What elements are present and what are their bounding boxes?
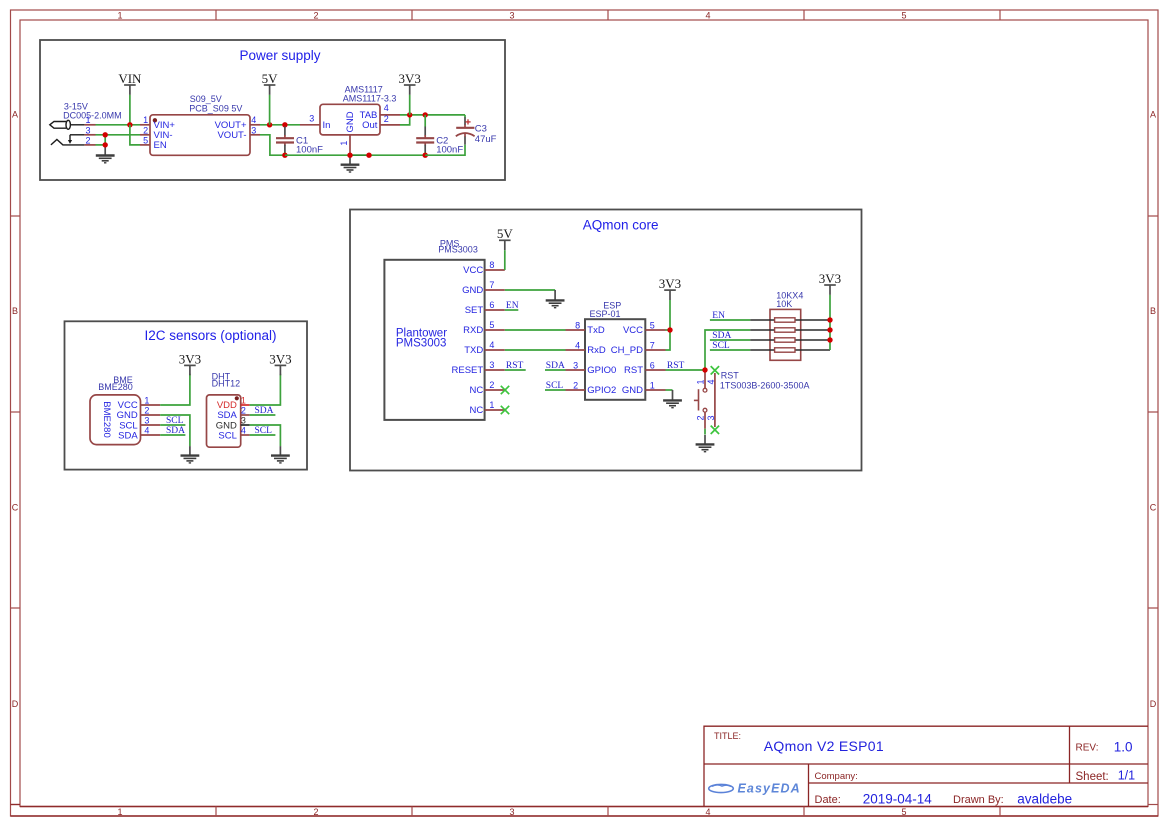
svg-text:SDA: SDA bbox=[712, 331, 731, 341]
frame tick top 5 bbox=[999, 10, 1001, 20]
frame corner cap bottom-left bbox=[11, 804, 21, 806]
svg-text:3V3: 3V3 bbox=[269, 351, 291, 366]
resistor network RN1 element R3 bbox=[775, 338, 795, 342]
svg-text:4: 4 bbox=[489, 340, 494, 350]
connector J1 pin 2 lever contact bbox=[51, 140, 85, 145]
frame tick right C/D bbox=[1148, 607, 1158, 609]
svg-text:5: 5 bbox=[901, 10, 906, 20]
net label SDA at BME bbox=[166, 426, 185, 436]
wire U4.GND to ground bbox=[250, 425, 281, 446]
svg-text:1: 1 bbox=[695, 379, 705, 384]
svg-text:3: 3 bbox=[251, 125, 256, 135]
junction U6.VCC 3V3 bbox=[667, 327, 672, 332]
svg-text:1: 1 bbox=[117, 10, 122, 20]
svg-text:C: C bbox=[1150, 503, 1157, 513]
frame corner cap bottom-right bbox=[1148, 804, 1158, 806]
frame tick right B/C bbox=[1148, 411, 1158, 413]
svg-text:5: 5 bbox=[489, 320, 494, 330]
svg-text:10K: 10K bbox=[776, 299, 792, 309]
switch SW1 pin2 stub bbox=[704, 412, 706, 428]
wire 3V3 down RN right side bbox=[829, 295, 831, 350]
net flag 3V3 RN bbox=[819, 271, 841, 295]
junction RN pin EN bbox=[827, 317, 832, 322]
resistor network RN1 element R2 bbox=[775, 328, 795, 332]
svg-text:3: 3 bbox=[309, 114, 314, 124]
svg-text:2: 2 bbox=[143, 125, 148, 135]
svg-text:GND: GND bbox=[622, 385, 643, 396]
frame tick top 4 bbox=[803, 10, 805, 20]
svg-text:DHT12: DHT12 bbox=[212, 379, 241, 389]
svg-text:1: 1 bbox=[339, 141, 349, 146]
ground under DC jack bbox=[96, 145, 115, 163]
svg-text:1: 1 bbox=[650, 381, 655, 391]
net label SDA at U6.GPIO0 bbox=[546, 361, 565, 371]
frame bottom inner emphasized bbox=[20, 806, 1148, 808]
svg-text:1TS003B-2600-3500A: 1TS003B-2600-3500A bbox=[720, 381, 810, 391]
svg-text:TXD: TXD bbox=[464, 345, 483, 356]
i2c sensors section box bbox=[65, 321, 308, 469]
svg-text:RST: RST bbox=[624, 365, 643, 376]
svg-text:EN: EN bbox=[154, 140, 167, 151]
junction RST switch bbox=[702, 367, 707, 372]
svg-text:NC: NC bbox=[469, 405, 483, 416]
wire U3.GND to ground bbox=[160, 415, 190, 446]
wire 3V3 down to U6.VCC and CH_PD bbox=[666, 300, 671, 350]
sensor U4 pin names bbox=[216, 400, 238, 441]
module U1 left pin stubs bbox=[140, 125, 150, 145]
wire U4.SDA stub wire bbox=[250, 414, 276, 416]
svg-text:SDA: SDA bbox=[255, 406, 274, 416]
svg-text:3V3: 3V3 bbox=[659, 276, 681, 291]
svg-text:1: 1 bbox=[85, 115, 90, 125]
net flag 3V3 power bbox=[399, 71, 421, 95]
frame tick left A/B bbox=[11, 215, 21, 217]
regulator U2 In pin stub bbox=[300, 124, 320, 126]
svg-text:8: 8 bbox=[489, 260, 494, 270]
sensor U5 pin names bbox=[452, 265, 484, 416]
svg-text:3V3: 3V3 bbox=[819, 271, 841, 286]
module U6 pin numbers bbox=[573, 321, 655, 391]
svg-text:2019-04-14: 2019-04-14 bbox=[863, 791, 933, 806]
net label EN at RN bbox=[712, 311, 725, 321]
wire U6.GPIO2 stub wire bbox=[545, 389, 566, 391]
title block outline bbox=[704, 726, 1148, 806]
module U6 pin names bbox=[587, 325, 643, 396]
svg-text:I2C sensors (optional): I2C sensors (optional) bbox=[144, 328, 276, 343]
svg-text:B: B bbox=[1150, 306, 1156, 316]
junction C2 top bbox=[423, 112, 428, 117]
svg-text:Sheet:: Sheet: bbox=[1076, 771, 1109, 783]
net label SCL at U6.GPIO2 bbox=[546, 381, 564, 391]
svg-text:ESP-01: ESP-01 bbox=[590, 309, 621, 319]
svg-text:4: 4 bbox=[705, 10, 710, 20]
switch SW1 contact circle bottom bbox=[703, 408, 707, 412]
svg-text:100nF: 100nF bbox=[296, 145, 323, 156]
svg-text:In: In bbox=[323, 120, 331, 131]
module U6 right pin stubs bbox=[645, 330, 665, 390]
wire J1.2 to ground bbox=[96, 144, 106, 146]
junction 5V bbox=[267, 122, 272, 127]
svg-text:RST: RST bbox=[667, 361, 685, 371]
aqmon core section box bbox=[350, 210, 862, 471]
sensor U5 pin stubs bbox=[485, 270, 505, 410]
svg-text:4: 4 bbox=[705, 807, 710, 817]
sensor U4 body bbox=[207, 395, 241, 447]
frame tick bottom 4 bbox=[803, 807, 805, 817]
svg-text:C3: C3 bbox=[475, 123, 487, 134]
svg-text:A: A bbox=[12, 110, 18, 120]
svg-text:EasyEDA: EasyEDA bbox=[738, 781, 801, 795]
no-connect X at SW1 pin3 bbox=[711, 426, 719, 434]
svg-text:SCL: SCL bbox=[255, 426, 273, 436]
svg-text:3: 3 bbox=[509, 807, 514, 817]
wire U5.TXD to U6.RxD bbox=[505, 349, 566, 351]
svg-text:2: 2 bbox=[85, 135, 90, 145]
module U1 pin1 dot bbox=[153, 118, 157, 122]
net label SDA at DHT bbox=[255, 406, 274, 416]
no-connect X at U5 pin2 bbox=[501, 386, 509, 394]
svg-text:PMS3003: PMS3003 bbox=[396, 337, 447, 349]
junction C2 bottom bbox=[423, 153, 428, 158]
svg-text:RxD: RxD bbox=[587, 345, 606, 356]
connector J1 DC jack plug symbol bbox=[50, 120, 85, 129]
sensor U3 pin stubs bbox=[141, 405, 161, 435]
svg-text:Power supply: Power supply bbox=[239, 48, 320, 63]
wire U5.RESET stub wire bbox=[505, 369, 526, 371]
wire U3.SDA stub wire bbox=[160, 434, 185, 436]
svg-text:REV:: REV: bbox=[1076, 743, 1099, 754]
frame tick top 1 bbox=[215, 10, 217, 20]
wire SW1.2 to ground bbox=[704, 429, 706, 435]
svg-text:4: 4 bbox=[241, 426, 246, 436]
frame tick top 2 bbox=[411, 10, 413, 20]
regulator U2 pin names bbox=[323, 110, 378, 132]
svg-text:avaldebe: avaldebe bbox=[1017, 791, 1072, 806]
svg-text:100nF: 100nF bbox=[436, 145, 463, 156]
wire EN row to RN bbox=[710, 319, 750, 321]
frame tick left C/D bbox=[11, 607, 21, 609]
connector J1 pin 3 line with switch arrow bbox=[68, 135, 85, 144]
sensor U4 pin stubs bbox=[241, 405, 250, 435]
svg-text:4: 4 bbox=[575, 341, 580, 351]
net label RST at U5.RESET bbox=[506, 361, 524, 371]
svg-text:SDA: SDA bbox=[118, 430, 138, 441]
svg-text:A: A bbox=[1150, 110, 1156, 120]
module U6 left pin stubs bbox=[566, 330, 586, 390]
sensor U3 body bbox=[90, 395, 141, 445]
svg-text:AQmon core: AQmon core bbox=[583, 218, 659, 233]
svg-text:4: 4 bbox=[144, 426, 149, 436]
net flag 3V3 ESP bbox=[659, 276, 681, 300]
wire U4.VDD to 3V3 bbox=[250, 374, 281, 405]
svg-text:5: 5 bbox=[143, 135, 148, 145]
resistor network RN1 right pin stubs bbox=[795, 320, 830, 350]
wire U1.VOUT+ to U2.In bbox=[260, 124, 300, 126]
module U1 right pin stubs bbox=[250, 125, 260, 135]
svg-text:S09_5V: S09_5V bbox=[190, 94, 222, 104]
svg-text:3: 3 bbox=[85, 125, 90, 135]
wire VIN to EN bbox=[130, 125, 140, 145]
svg-text:AQmon V2 ESP01: AQmon V2 ESP01 bbox=[764, 738, 884, 754]
switch SW1 right pole pins 4-3 bbox=[714, 373, 716, 427]
net label SDA at RN bbox=[712, 331, 731, 341]
regulator U2 Out pin stub bbox=[380, 124, 400, 126]
resistor network RN1 element R1 bbox=[775, 318, 795, 322]
module U1 pin numbers bbox=[143, 115, 256, 145]
junction 3V3 bbox=[407, 112, 412, 117]
svg-text:47uF: 47uF bbox=[475, 134, 497, 145]
svg-text:GPIO2: GPIO2 bbox=[587, 385, 616, 396]
svg-text:VCC: VCC bbox=[463, 265, 483, 276]
svg-text:GPIO0: GPIO0 bbox=[587, 365, 616, 376]
svg-text:B: B bbox=[12, 306, 18, 316]
capacitor C1 bbox=[276, 127, 294, 156]
wire 5V to U5.VCC bbox=[504, 250, 506, 270]
capacitor C3 polarized bbox=[456, 117, 475, 145]
svg-text:GND: GND bbox=[462, 285, 483, 296]
net label EN at U5.SET bbox=[506, 301, 519, 311]
svg-text:3V3: 3V3 bbox=[179, 351, 201, 366]
svg-text:3: 3 bbox=[144, 416, 149, 426]
easyeda logo bbox=[709, 781, 801, 795]
svg-text:1/1: 1/1 bbox=[1118, 769, 1135, 783]
svg-text:2: 2 bbox=[573, 381, 578, 391]
svg-text:DC005-2.0MM: DC005-2.0MM bbox=[63, 111, 122, 121]
wire U6.GND to ground bbox=[666, 389, 673, 391]
wire U2.Out up to 3V3 rail bbox=[400, 115, 410, 125]
svg-text:D: D bbox=[12, 699, 19, 709]
svg-text:SCL: SCL bbox=[218, 431, 236, 442]
power supply section box bbox=[40, 40, 505, 180]
svg-text:SCL: SCL bbox=[712, 341, 730, 351]
svg-text:5: 5 bbox=[901, 807, 906, 817]
svg-text:Date:: Date: bbox=[815, 794, 841, 806]
svg-text:Out: Out bbox=[362, 120, 378, 131]
svg-text:EN: EN bbox=[506, 301, 519, 311]
junction C1 top bbox=[282, 122, 287, 127]
sensor U4 pin1 dot bbox=[235, 396, 239, 400]
junction RN pin SDA bbox=[827, 337, 832, 342]
wire 3V3 flag drop bbox=[409, 95, 411, 115]
svg-text:RST: RST bbox=[721, 370, 740, 380]
wire U4.SCL stub wire bbox=[250, 434, 276, 436]
wire VIN flag drop bbox=[129, 95, 131, 125]
net flag 3V3 DHT bbox=[269, 351, 291, 375]
title block divider logo cell bbox=[808, 764, 810, 807]
wire J1.1 to U1.VIN+ bbox=[96, 124, 141, 126]
net flag 5V aqmon bbox=[497, 226, 514, 250]
module U1 pin names bbox=[154, 120, 247, 151]
svg-text:6: 6 bbox=[489, 300, 494, 310]
frame tick right A/B bbox=[1148, 215, 1158, 217]
frame tick bottom 3 bbox=[607, 807, 609, 817]
frame bottom outer emphasized bbox=[11, 815, 1159, 817]
svg-text:5V: 5V bbox=[497, 226, 514, 241]
svg-text:RXD: RXD bbox=[463, 325, 483, 336]
svg-text:4: 4 bbox=[251, 115, 256, 125]
svg-text:TxD: TxD bbox=[587, 325, 605, 336]
svg-text:3: 3 bbox=[509, 10, 514, 20]
svg-text:3: 3 bbox=[489, 360, 494, 370]
svg-text:8: 8 bbox=[575, 321, 580, 331]
junction U2 GND at rail bbox=[347, 153, 352, 158]
svg-text:SET: SET bbox=[465, 305, 484, 316]
svg-text:1.0: 1.0 bbox=[1114, 739, 1133, 754]
module U6 ESP-01 body bbox=[585, 319, 645, 400]
net label RST at U6.RST bbox=[667, 361, 685, 371]
svg-text:PMS3003: PMS3003 bbox=[438, 245, 478, 255]
wire U1.VOUT- to bottom rail bbox=[260, 135, 285, 155]
svg-text:5: 5 bbox=[650, 321, 655, 331]
title block row line 1 bbox=[704, 763, 1148, 765]
svg-text:4: 4 bbox=[384, 103, 389, 113]
svg-text:3V3: 3V3 bbox=[399, 71, 421, 86]
frame tick bottom 2 bbox=[411, 807, 413, 817]
regulator U2 TAB pin stub bbox=[380, 114, 400, 116]
resistor network RN1 body bbox=[770, 309, 801, 360]
regulator U2 GND pin stub bbox=[349, 135, 351, 155]
svg-text:EN: EN bbox=[712, 311, 725, 321]
frame tick left B/C bbox=[11, 411, 21, 413]
svg-text:4: 4 bbox=[706, 379, 716, 384]
net label SCL at DHT bbox=[255, 426, 273, 436]
resistor network RN1 left pin stubs bbox=[750, 320, 774, 350]
wire C3 bottom to rail bbox=[425, 145, 465, 156]
ground at U5.GND bbox=[546, 290, 565, 308]
sensor U5 Plantower PMS3003 body bbox=[384, 260, 484, 420]
wire U6.VCC to 3V3 drop bbox=[666, 329, 671, 331]
svg-text:RESET: RESET bbox=[452, 365, 484, 376]
switch SW1 contact circle top bbox=[703, 388, 707, 392]
ground under SW1 bbox=[696, 435, 715, 452]
svg-text:SDA: SDA bbox=[166, 426, 185, 436]
junction at J1.2 row bbox=[103, 142, 108, 147]
wire 5V flag drop bbox=[269, 95, 271, 125]
svg-text:2: 2 bbox=[144, 406, 149, 416]
sensor U3 pin numbers bbox=[144, 396, 149, 436]
svg-text:1: 1 bbox=[489, 400, 494, 410]
junction RN pin RST bbox=[827, 327, 832, 332]
svg-text:7: 7 bbox=[650, 341, 655, 351]
wire SCL row to RN bbox=[710, 349, 750, 351]
switch SW1 actuator bbox=[694, 389, 699, 410]
svg-text:VCC: VCC bbox=[623, 325, 643, 336]
svg-text:3: 3 bbox=[241, 416, 246, 426]
wire U6.GPIO0 stub wire bbox=[545, 369, 566, 371]
svg-text:5V: 5V bbox=[262, 71, 279, 86]
svg-text:2: 2 bbox=[489, 380, 494, 390]
svg-text:3: 3 bbox=[706, 415, 716, 420]
wire U3.VCC to 3V3 bbox=[160, 374, 190, 405]
svg-text:CH_PD: CH_PD bbox=[611, 345, 643, 356]
wire RST junction up to RN row bbox=[705, 330, 750, 370]
resistor network RN1 element R4 bbox=[775, 348, 795, 352]
title block divider rev cell bbox=[1069, 726, 1071, 783]
junction rail mid bbox=[366, 153, 371, 158]
ground under U2 bbox=[341, 155, 360, 172]
svg-text:TITLE:: TITLE: bbox=[714, 731, 741, 741]
frame tick bottom 1 bbox=[215, 807, 217, 817]
svg-text:1: 1 bbox=[241, 396, 246, 406]
wire J1.3 to U1.VIN- bbox=[96, 134, 141, 136]
net flag 5V bbox=[262, 71, 279, 95]
wire U2.TAB to 3V3 rail bbox=[400, 114, 465, 116]
svg-text:BME280: BME280 bbox=[101, 401, 112, 437]
regulator U2 body bbox=[320, 104, 380, 135]
sensor U4 pin numbers bbox=[241, 396, 246, 436]
svg-text:2: 2 bbox=[313, 807, 318, 817]
sensor U3 pin names bbox=[117, 400, 139, 441]
svg-text:VOUT-: VOUT- bbox=[217, 130, 246, 141]
svg-text:1: 1 bbox=[117, 807, 122, 817]
ground under DHT bbox=[271, 446, 290, 463]
svg-text:2: 2 bbox=[384, 114, 389, 124]
svg-text:BME280: BME280 bbox=[98, 382, 133, 392]
no-connect X at U5 pin1 bbox=[501, 406, 509, 414]
no-connect X at SW1 pin4 bbox=[711, 366, 719, 374]
wire U5.SET stub wire bbox=[505, 309, 519, 311]
svg-text:7: 7 bbox=[489, 280, 494, 290]
junction C1 bottom bbox=[282, 153, 287, 158]
junction VIN bbox=[127, 122, 132, 127]
wire SDA row to RN bbox=[710, 339, 750, 341]
svg-text:SCL: SCL bbox=[166, 416, 184, 426]
net flag VIN bbox=[118, 71, 142, 95]
sensor U5 pin numbers bbox=[489, 260, 494, 410]
svg-text:2: 2 bbox=[313, 10, 318, 20]
wire U5.GND to ground bbox=[505, 289, 555, 291]
net label SCL at RN bbox=[712, 341, 730, 351]
svg-text:RST: RST bbox=[506, 361, 524, 371]
bottom rail wire bbox=[285, 154, 425, 156]
svg-text:3: 3 bbox=[573, 361, 578, 371]
frame tick top 3 bbox=[607, 10, 609, 20]
svg-text:2: 2 bbox=[241, 406, 246, 416]
svg-text:Company:: Company: bbox=[815, 771, 858, 782]
ground at U6.GND bbox=[663, 390, 682, 408]
frame tick bottom 5 bbox=[999, 807, 1001, 817]
wire U6.RST to switch bbox=[666, 369, 706, 371]
wire ground tie vertical bbox=[104, 135, 106, 145]
wire rail overlap dark segment bbox=[350, 154, 369, 156]
svg-text:D: D bbox=[1150, 699, 1157, 709]
svg-text:C: C bbox=[12, 503, 19, 513]
wire U5.RXD to U6.TxD bbox=[505, 329, 566, 331]
junction at J1.3 row bbox=[103, 132, 108, 137]
ground under BME bbox=[181, 446, 200, 463]
wire 3V3 rail to C3 bbox=[464, 115, 466, 118]
svg-text:6: 6 bbox=[650, 361, 655, 371]
capacitor C2 bbox=[416, 115, 434, 155]
svg-text:1: 1 bbox=[143, 115, 148, 125]
module U1 body bbox=[150, 115, 250, 156]
svg-text:1: 1 bbox=[144, 396, 149, 406]
title block row line 2 bbox=[809, 782, 1149, 784]
connector J1 pin stubs bbox=[85, 125, 96, 145]
svg-text:VIN: VIN bbox=[118, 71, 142, 86]
svg-text:NC: NC bbox=[469, 385, 483, 396]
net label SCL at BME bbox=[166, 416, 184, 426]
svg-text:Drawn By:: Drawn By: bbox=[953, 794, 1004, 806]
svg-text:PCB_S09 5V: PCB_S09 5V bbox=[189, 103, 242, 113]
net flag 3V3 BME bbox=[179, 351, 201, 375]
switch SW1 pin1 stub bbox=[704, 370, 706, 388]
wire U3.SCL stub wire bbox=[160, 424, 185, 426]
svg-text:GND: GND bbox=[345, 111, 356, 132]
svg-text:2: 2 bbox=[695, 415, 705, 420]
